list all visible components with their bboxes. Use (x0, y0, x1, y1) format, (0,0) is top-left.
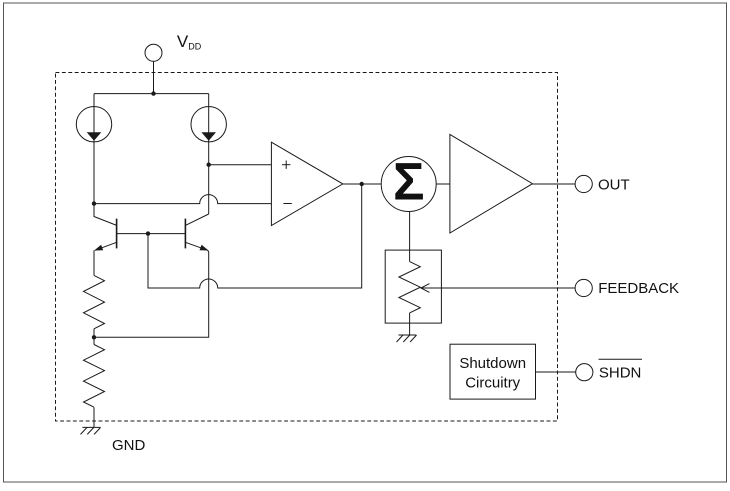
wire shutdown block to SHDN terminal (536, 371, 576, 373)
wire summing node to R3 (409, 212, 411, 262)
terminal VDD (145, 44, 162, 61)
wire VDD terminal to top rail (153, 61, 155, 93)
junction dot node B (I2 / op-amp + input) (207, 163, 211, 167)
wire op-amp inverting input to node A (hops over Q2 collector) (94, 195, 271, 204)
junction dot op-amp output (360, 182, 364, 186)
terminal OUT (575, 175, 592, 192)
junction dot node C (92, 335, 96, 339)
current source I2 (191, 94, 226, 142)
terminal SHDN (576, 364, 593, 381)
wire output amp to OUT terminal (533, 183, 576, 185)
wire R2 to ground (93, 407, 95, 427)
resistor R3 (variable) (399, 262, 420, 313)
ground symbol (GND) (81, 427, 101, 434)
output amplifier U3 (450, 134, 533, 233)
current source I1 (76, 94, 111, 142)
svg-text:OUT: OUT (598, 176, 630, 193)
shutdown circuitry block (450, 344, 536, 399)
wire op-amp output to summing node (343, 183, 381, 185)
wire R1 to node C (93, 329, 95, 338)
svg-text:Circuitry: Circuitry (465, 375, 520, 392)
junction dot node A (92, 201, 96, 205)
wire Q1 base to Q2 base (117, 233, 186, 235)
ground symbol (R3) (397, 335, 417, 342)
svg-text:SHDN: SHDN (599, 364, 642, 381)
terminal FEEDBACK (575, 279, 592, 296)
svg-text:Shutdown: Shutdown (459, 355, 526, 372)
op-amp U1 (271, 142, 342, 225)
junction dot base node (146, 231, 150, 235)
wire Q2 emitter to node C (94, 250, 209, 337)
overline of SHDN label (599, 358, 643, 360)
summing node U2 (sigma) (381, 153, 436, 212)
wire R3 to ground (409, 313, 411, 335)
wire FEEDBACK terminal to R3 wiper (arrow) (421, 284, 575, 293)
wire node C to R2 (93, 337, 95, 344)
transistor Q1 (94, 204, 117, 251)
IC package boundary (dashed) (56, 73, 558, 422)
svg-text:Σ: Σ (393, 153, 425, 212)
wire top rail (94, 93, 209, 95)
wire node B to op-amp non-inverting input (209, 164, 272, 166)
wire Q1 emitter to R1 (93, 250, 95, 275)
wire I1 output to node A (93, 142, 95, 204)
wire base node to op-amp output (hops over Q2 emitter wire) (148, 184, 362, 288)
junction dot VDD / top rail (151, 91, 155, 95)
variable resistor block (box) (385, 250, 441, 323)
transistor Q2 (185, 214, 208, 251)
wire I2 output down to Q2 collector (208, 142, 210, 215)
resistor R1 (84, 275, 105, 328)
svg-text:FEEDBACK: FEEDBACK (598, 280, 679, 297)
svg-text:GND: GND (112, 437, 146, 454)
resistor R2 (84, 345, 105, 408)
wire summing node to output amp (436, 183, 450, 185)
